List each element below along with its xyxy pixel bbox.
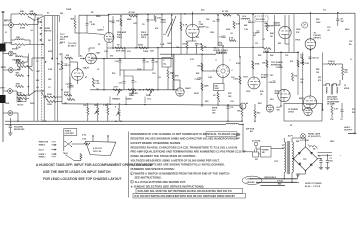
wire bottom drops [227,109,229,122]
resistor R13 47 1W [129,15,137,17]
resistor R1 68K [19,13,28,15]
notes circled 1 [131,172,134,175]
svg-text:TREM 2: TREM 2 [39,157,46,159]
resistor R2 470K [19,24,28,26]
resistor R16 [139,47,147,49]
capacitor C26 [123,81,126,83]
wire v x294 [293,14,295,52]
speaker SP1 [85,141,115,155]
svg-text:PRE-AMP EQUALIZATIONS AND TERM: PRE-AMP EQUALIZATIONS AND TERMINATIONS A… [131,150,247,154]
wire C27 legs [132,76,134,81]
svg-text:NOT USED: NOT USED [256,19,266,21]
wire S2 to bundle [36,90,44,92]
svg-text:7247: 7247 [96,52,102,55]
svg-text:4.7K: 4.7K [229,37,234,40]
svg-text:INPUTS: INPUTS [44,31,52,33]
wire v x239.7 [239,15,241,57]
svg-text:.005: .005 [133,23,137,25]
power transformer T3 core [286,141,288,174]
svg-text:250K: 250K [96,16,101,18]
resistor R17 4.7K [180,22,182,31]
junction dot 327.5,155.2 [327,155,328,156]
svg-text:330K: 330K [137,69,142,71]
switch tick 3 [40,33,42,35]
svg-text:R39: R39 [260,91,263,93]
svg-text:2.2M: 2.2M [48,69,53,71]
svg-text:25: 25 [98,44,100,46]
reverb box [17,96,26,102]
wire v x298 [297,52,299,95]
wire S5 link [74,160,81,162]
svg-text:450V: 450V [345,28,350,31]
wire bridge right [318,158,322,160]
resistor R48 22K input [30,13,37,15]
resistor R42 220K [167,70,169,78]
triode V1B 7247 [86,53,97,64]
junction dot 153,89.8 [152,89,153,90]
svg-text:TAPE: TAPE [1,66,7,69]
junction tone dot e [139,89,141,91]
svg-text:1.5K: 1.5K [95,83,100,85]
svg-text:100: 100 [316,72,319,74]
wire v x137 [136,14,138,48]
fuse F1 [310,146,316,148]
pot arrow treble [117,91,120,95]
triode V13 12AU7 [176,88,184,96]
capacitor C11 [223,35,226,37]
pentode V10 6BQ5 lower [303,96,316,109]
wire J1 to R2 [13,24,19,26]
switch S7 jack [27,66,33,72]
svg-text:470K: 470K [16,60,21,63]
junction be3 [144,104,146,106]
svg-text:GND: GND [5,103,10,105]
svg-text:C18: C18 [152,73,155,75]
svg-text:C21: C21 [285,55,288,57]
junction low dot1 [115,120,117,122]
arrow output [348,133,356,135]
junction dot 321,158.7 [320,158,321,159]
heater line 2 [256,181,297,183]
svg-text:6BQ5: 6BQ5 [299,98,305,100]
svg-text:C30: C30 [230,101,233,103]
svg-text:R5: R5 [91,12,93,14]
ground G1 [8,132,12,134]
wire B+ arrow [80,58,85,60]
junction topbus dot8 [310,12,312,14]
resistor R47 470K [266,23,268,31]
svg-text:1M: 1M [48,40,51,42]
capacitor C28 [65,63,68,65]
junction dot 43,91 [42,90,43,91]
junction dot 57.2,58.5 [57,58,58,59]
svg-text:.02: .02 [300,82,303,84]
output transformer T2 coils [326,87,327,93]
resistor R25 [201,83,203,91]
resistor R33 50u [328,63,336,65]
wire v x148 [147,14,149,48]
junction tone dot f [143,89,145,91]
svg-text:4.7K: 4.7K [183,24,188,27]
capacitor C27 [132,80,135,82]
svg-text:R63: R63 [258,103,261,105]
wire T3 bottoms [283,172,285,178]
svg-text:220K: 220K [64,92,69,94]
svg-text:.02: .02 [59,43,62,45]
resistor R52 mid [67,99,75,101]
wire C4 legs [86,15,88,23]
svg-text:4.7Ω 4.7Ω: 4.7Ω 4.7Ω [93,147,102,150]
wire top bus left segment [79,14,109,16]
svg-text:C1: C1 [318,156,320,158]
junction busB dot1 [112,47,114,49]
balance pot box [214,84,225,91]
svg-text:100K: 100K [167,43,172,45]
notes line1 box [206,132,237,137]
junction bus dot 3 [136,14,138,16]
junction out dot2 [280,52,282,54]
svg-text:12AX7: 12AX7 [97,29,104,32]
svg-text:12AX7: 12AX7 [83,67,90,70]
svg-text:47 1W: 47 1W [222,10,228,13]
junction dot 322.7,110 [322,109,323,110]
junction dot 305.5,170.7 [305,170,306,171]
resistor R39 [84,143,90,145]
wire V6 cath [284,39,286,44]
svg-text:1500: 1500 [210,32,214,34]
junction bus dot 2 [120,15,122,17]
svg-text:2: 2 [131,182,132,184]
svg-text:1W: 1W [176,47,179,49]
neon V8 lamp [302,22,308,28]
resistor R8 40K [74,20,76,28]
wire tone v x104 [103,59,105,90]
power transformer T3 primary [284,142,285,172]
resistor R27 470 [239,76,241,84]
resistor R10 220K [47,96,56,98]
junction be4 [201,104,203,106]
wire res drops [87,115,89,122]
svg-text:S1: S1 [47,13,49,15]
junction dot 108,136 [107,135,108,136]
wire tone link y76 [120,69,153,71]
junction bus dot 4 [147,14,149,16]
svg-text:PANEL NEAREST THE STAGE RUNS O: PANEL NEAREST THE STAGE RUNS OF CONTROL. [131,154,197,158]
svg-text:SOLO: SOLO [39,149,45,151]
svg-text:.02: .02 [158,77,161,79]
svg-text:ALL ROTARY SWITCHES ARE SHOWN: ALL ROTARY SWITCHES ARE SHOWN TURNED FUL… [131,163,226,167]
svg-text:470: 470 [110,55,113,58]
svg-text:TREBLE: TREBLE [112,99,121,101]
wire V13 plate [179,80,181,88]
svg-text:25/25: 25/25 [194,93,199,95]
wire v x62 [61,53,63,90]
wire v x69.9 [69,57,71,100]
notes circled 2 [131,180,134,183]
svg-text:10K: 10K [262,63,266,65]
junction out dot1 [266,52,268,54]
svg-text:PIN 6: PIN 6 [296,40,301,42]
wire v x107 T1 cathode [106,43,108,59]
wire v x162 [161,14,163,48]
pentode V9 6BQ5 upper [278,89,290,101]
svg-text:B+AMP: B+AMP [141,34,149,37]
box NOT USED [255,16,268,22]
junction dot 298,52.3 [297,52,298,53]
svg-text:4.7K: 4.7K [114,86,119,89]
chassis shield mark upper [0,44,6,52]
resistor R29 1M [292,73,294,81]
resistor R53 jackcol [16,63,24,65]
svg-text:TREB DYN: TREB DYN [39,142,49,144]
svg-text:6.3VAC: 6.3VAC [277,179,284,182]
svg-text:C/24 50: C/24 50 [328,60,335,63]
wire C5 legs [69,77,71,84]
wire v x263 [262,13,264,48]
svg-text:C8: C8 [142,24,144,26]
switch S5 lower [66,155,74,161]
wire arrow into switch [37,16,44,20]
junction dot 93,136 [92,135,93,136]
svg-text:INPUT: INPUT [4,21,11,23]
svg-text:1K: 1K [204,47,207,49]
svg-text:1M: 1M [57,64,60,66]
wire heater drops [296,174,298,179]
svg-text:F1: F1 [282,145,284,147]
svg-text:.05: .05 [327,30,330,32]
wire C25 legs [152,59,154,61]
triode V5 7199B [248,77,260,89]
svg-text:★ SUNDAE SELECTORS (SEE SERVIC: ★ SUNDAE SELECTORS (SEE SERVICE INSTRUCT… [131,184,205,188]
electrolytic can box [162,58,171,68]
capacitor C18 C31 [227,106,230,108]
svg-text:470: 470 [344,71,347,74]
wire left shield bus [2,12,4,142]
junction topbus dot9 [337,12,339,14]
svg-text:5K Z PRI: 5K Z PRI [327,104,335,106]
svg-text:470K: 470K [48,50,53,53]
svg-text:470K: 470K [16,83,21,86]
heater line 1 [250,178,297,180]
capacitor C21 C59 [319,160,322,162]
wire v x79 [78,15,80,57]
junction bus dot 1 [108,14,110,16]
svg-text:C11: C11 [255,43,258,45]
svg-text:1.8K: 1.8K [208,77,213,79]
svg-text:TONE: TONE [143,51,149,53]
wire v x108.5 [108,14,110,32]
wire bridge bottom [305,171,307,174]
resistor R37 [241,108,243,116]
svg-text:100K: 100K [47,104,52,106]
resistor R34 470 [342,67,344,75]
svg-text:EXP 500K: EXP 500K [116,51,126,53]
svg-text:8: 8 [216,60,217,62]
svg-text:BRIGHT: BRIGHT [4,43,13,45]
svg-text:NUMBERS AND SPECIFICATIONS:: NUMBERS AND SPECIFICATIONS: [131,167,175,171]
wire bridge left [292,158,294,160]
junction dot 18,121.2 [17,121,18,122]
resistor R9 1M [61,61,63,69]
wire v x289 [288,15,290,52]
wire v x253 [252,14,254,77]
wire V1B anode [88,48,90,52]
wire V3 cathode [192,38,194,41]
resistor R41 [331,106,333,114]
svg-text:47K: 47K [175,75,179,78]
wire v x125 [124,48,126,59]
inductor L1 10H [15,39,24,40]
svg-text:470K: 470K [17,91,22,94]
svg-text:1.5K: 1.5K [305,63,310,65]
svg-text:2: 2 [232,70,233,72]
capacitor C24 tone [143,60,146,62]
svg-text:470: 470 [318,79,321,82]
capacitor C4 [86,23,89,25]
wire C26 legs [123,76,125,82]
notes boxed line A [136,188,243,193]
svg-text:R19: R19 [112,73,115,75]
svg-text:220K: 220K [204,86,209,88]
wire T3 tops [283,138,285,142]
wire bridge top [305,138,307,147]
svg-text:47 1W: 47 1W [129,11,135,14]
junction dot 242,121.2 [241,121,242,122]
junction dot 104,58.6 [103,58,104,59]
svg-text:B+FV: B+FV [288,136,294,138]
svg-text:R70: R70 [352,109,355,111]
wire main bus B (y48) [107,46,263,49]
junction dot 293.5,158.7 [293,158,294,159]
junction be5 [227,104,229,106]
svg-text:8: 8 [219,101,220,103]
junction dot 267,106 [266,105,267,106]
capacitor C8 [195,43,198,45]
svg-text:R51: R51 [258,55,261,57]
svg-text:1.5K: 1.5K [103,105,108,107]
svg-text:1: 1 [131,173,132,175]
wire R42 legs [167,67,169,70]
svg-text:J1: J1 [5,32,7,34]
svg-text:SEE INSTRUCTIONS.: SEE INSTRUCTIONS. [135,176,162,180]
switch S3 gang [168,16,176,36]
switch S2 [29,91,36,96]
inductor L2 [16,56,23,57]
svg-text:SW: SW [60,13,63,15]
capacitor C13 [198,77,201,79]
svg-text:220: 220 [352,112,355,114]
svg-text:BLK: BLK [236,135,241,137]
svg-text:H.T FUSE: H.T FUSE [300,140,309,142]
svg-text:C27: C27 [349,41,352,43]
wire box tails [331,114,333,118]
junction dot 243,124.3 [242,124,243,125]
svg-text:SUPPLY POWER: SUPPLY POWER [305,183,322,185]
wire v x181 [180,15,182,54]
junction dot 240,57 [239,56,240,57]
wire switch out [72,143,85,145]
svg-text:RHY: RHY [1,88,6,90]
junction busB dot5 [157,47,159,49]
junction tone dot d [103,89,105,91]
svg-text:C1: C1 [37,22,39,24]
resistor R6 470K [17,94,26,96]
svg-text:1: 1 [230,60,231,62]
input jack J4 [8,89,13,94]
wire schematic bottom edge [62,104,240,105]
svg-text:220K: 220K [226,29,231,31]
wire R2 out [28,24,38,26]
svg-text:C28: C28 [83,105,86,107]
pot P1 [97,107,99,115]
inductor L3 [241,18,250,19]
resistor R43 [172,73,174,80]
junction dot 45.6,121.2 [45,121,46,122]
junction tone dot c [152,58,154,60]
wire tone drops [109,97,111,104]
wire C23 legs [119,59,121,61]
capacitor C19 iso [9,125,12,127]
svg-text:R33: R33 [228,93,231,95]
svg-text:INPUTS: INPUTS [314,38,322,40]
wire top B+ bus [109,13,356,14]
wire fuse [308,145,310,147]
svg-text:4.7Ω: 4.7Ω [82,134,87,137]
bridge diode D2 [310,152,312,154]
resistor R12 1M [120,19,122,27]
input jack J2 [9,51,14,56]
svg-text:LP360: LP360 [288,112,295,114]
switch tick 4 [40,39,42,41]
svg-text:GROUND: GROUND [247,182,256,184]
resistor R3 4.7K [15,44,25,46]
svg-text:470K: 470K [20,27,26,30]
svg-text:12AU7: 12AU7 [185,87,192,90]
wire L1 junction [11,39,15,41]
junction dot 255,121.2 [254,121,255,122]
svg-text:6V (LILLIPUT): 6V (LILLIPUT) [308,136,321,138]
svg-text:2W: 2W [96,89,99,91]
svg-text:4.7K: 4.7K [334,108,339,111]
junction dot 45.6,62 [45,61,46,62]
switch S4 contacts [65,142,72,147]
svg-text:TONE: TONE [66,9,72,11]
svg-text:PHASE: PHASE [274,24,282,27]
svg-text:500K: 500K [129,95,134,97]
wire C14 leg [337,13,339,19]
notes boxed line B [133,193,246,198]
junction tone dot b [143,58,145,60]
resistor R22 [229,40,236,42]
svg-text:VOLTAGES MEASURED USING A METE: VOLTAGES MEASURED USING A METER OF 20,00… [131,158,220,162]
wire v x37.8 [37,20,39,121]
svg-text:1.5Ω: 1.5Ω [82,139,87,141]
svg-text:1M: 1M [270,36,273,38]
junction topbus dot6 [237,14,239,16]
svg-text:TUNR: TUNR [1,50,7,52]
capacitor C5 [69,83,72,85]
pentode V6 phase [279,26,291,38]
capacitor C15 [273,80,276,82]
wire bundle v2 [43,16,45,122]
wire low cluster [43,96,47,98]
capacitor C17 .05 [309,56,312,58]
wire J4 out [12,90,17,92]
svg-text:REMAINDER OF LITE CHANNEL IS N: REMAINDER OF LITE CHANNEL IS NOT SHOWN B… [131,132,242,136]
svg-text:130V: 130V [246,91,251,93]
resistor R31 [266,60,268,68]
junction dot 310.4,50 [310,49,311,50]
